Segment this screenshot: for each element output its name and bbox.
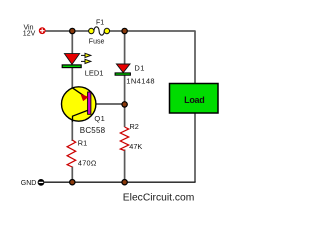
diode D1 [115,64,130,75]
junction node at R2 bottom [122,180,127,185]
fuse F1 [89,27,110,35]
load box [170,84,219,114]
wire right rail lower [194,112,196,182]
resistor R2 [120,127,128,151]
wire D1 to junction [124,75,126,105]
LED1 [62,53,91,67]
wire right rail upper [194,31,196,84]
svg-text:BC558: BC558 [80,126,106,135]
junction node at GND rail [70,180,75,185]
resistor R1 [67,140,76,167]
svg-text:Fuse: Fuse [89,39,105,46]
svg-text:LED1: LED1 [85,68,104,77]
wire D1 rail upper [124,31,126,65]
wire Q1 base to D1/R2 junction [91,103,125,105]
wire bottom horizontal [44,181,195,183]
junction node at Vin rail [70,28,75,33]
svg-text:R1: R1 [78,138,87,147]
wire R2 to bottom [124,150,126,183]
wire Q1 to R1 [71,120,73,141]
svg-text:12V: 12V [23,31,36,38]
svg-text:GND: GND [21,180,37,187]
svg-text:Load: Load [184,95,204,105]
transistor Q1 [61,87,95,122]
wire junction to R2 [124,104,126,127]
terminal Vin + [39,27,46,34]
svg-text:ElecCircuit.com: ElecCircuit.com [123,192,195,203]
wire R1 to bottom [71,167,73,183]
svg-text:470Ω: 470Ω [78,159,97,168]
terminal GND [38,179,45,186]
wire top horizontal [46,30,196,32]
wire left rail (Vin junction down to LED) [71,31,73,55]
svg-text:1N4148: 1N4148 [126,76,155,85]
svg-text:R2: R2 [130,122,139,131]
junction node at D1/R2/base [122,102,127,107]
svg-text:47K: 47K [129,142,142,151]
junction node at D1 rail top [122,28,127,33]
svg-text:D1: D1 [134,64,145,73]
wire LED to Q1 [71,67,73,88]
svg-text:Q1: Q1 [94,114,105,123]
svg-text:F1: F1 [96,19,104,26]
